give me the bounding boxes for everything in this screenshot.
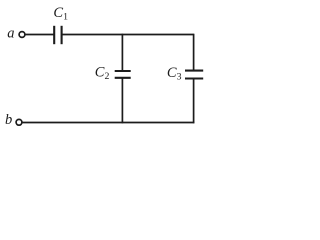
capacitor C2 [115,71,131,78]
terminal b [16,119,22,125]
wire [121,34,123,71]
capacitor C1 [54,26,61,44]
svg-text:C2: C2 [95,65,110,83]
svg-text:C3: C3 [167,65,182,83]
svg-text:a: a [7,26,14,42]
wire [22,122,194,124]
wire [193,79,195,124]
wire [193,34,195,71]
svg-text:C1: C1 [53,5,68,23]
capacitor C3 [185,71,203,79]
wire [121,78,123,124]
wire [25,34,54,36]
svg-text:b: b [5,112,12,128]
terminal a [19,32,25,38]
wire [62,34,194,36]
